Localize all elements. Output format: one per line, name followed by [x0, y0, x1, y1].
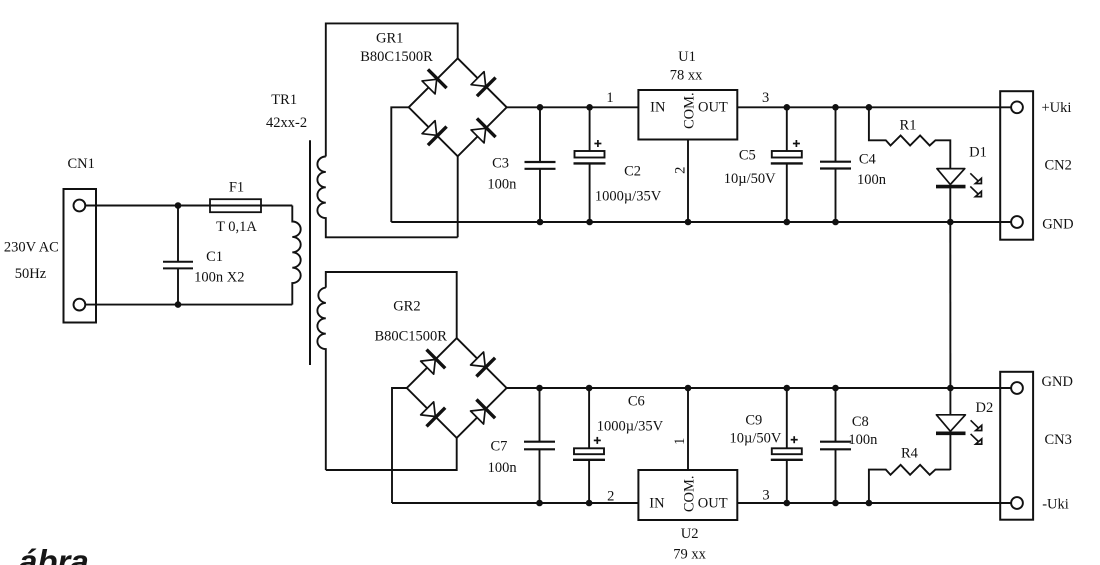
svg-text:10µ/50V: 10µ/50V: [729, 431, 781, 447]
svg-text:100n: 100n: [488, 460, 518, 476]
svg-text:1000µ/35V: 1000µ/35V: [597, 418, 664, 434]
svg-text:U1: U1: [678, 49, 696, 65]
svg-text:2: 2: [672, 167, 688, 174]
svg-text:2: 2: [607, 489, 614, 505]
svg-text:C1: C1: [206, 249, 223, 265]
svg-text:42xx-2: 42xx-2: [266, 115, 307, 131]
svg-text:OUT: OUT: [698, 99, 728, 115]
svg-text:R4: R4: [901, 446, 919, 462]
svg-text:50Hz: 50Hz: [15, 266, 47, 282]
svg-text:C8: C8: [852, 414, 869, 430]
svg-text:230V AC: 230V AC: [4, 240, 59, 256]
svg-text:100n: 100n: [848, 432, 878, 448]
svg-text:78 xx: 78 xx: [670, 68, 703, 84]
svg-text:3: 3: [762, 487, 769, 503]
svg-text:C9: C9: [745, 413, 762, 429]
svg-text:C6: C6: [628, 394, 645, 410]
svg-text:C3: C3: [492, 155, 509, 171]
svg-text:100n: 100n: [487, 177, 517, 193]
svg-text:U2: U2: [681, 526, 699, 542]
svg-text:100n: 100n: [857, 172, 887, 188]
svg-text:T 0,1A: T 0,1A: [216, 219, 257, 235]
svg-text:R1: R1: [900, 118, 917, 134]
svg-text:OUT: OUT: [698, 496, 728, 512]
svg-text:+Uki: +Uki: [1042, 100, 1072, 116]
svg-text:CN1: CN1: [67, 156, 94, 172]
svg-text:D1: D1: [969, 145, 987, 161]
svg-text:TR1: TR1: [271, 92, 297, 108]
svg-text:3: 3: [762, 90, 769, 106]
svg-text:10µ/50V: 10µ/50V: [724, 171, 776, 187]
svg-text:CN2: CN2: [1045, 157, 1072, 173]
svg-text:B80C1500R: B80C1500R: [374, 328, 447, 344]
svg-text:C2: C2: [624, 163, 641, 179]
svg-text:IN: IN: [650, 99, 666, 115]
svg-text:C7: C7: [490, 438, 507, 454]
svg-text:CN3: CN3: [1045, 432, 1072, 448]
svg-text:GND: GND: [1042, 217, 1073, 233]
svg-text:COM.: COM.: [682, 92, 698, 129]
svg-text:1: 1: [606, 90, 613, 106]
svg-text:-Uki: -Uki: [1042, 497, 1069, 513]
svg-text:GR1: GR1: [376, 31, 403, 47]
svg-text:COM.: COM.: [682, 475, 698, 512]
svg-text:D2: D2: [976, 400, 994, 416]
svg-text:79 xx: 79 xx: [673, 546, 706, 562]
svg-text:GND: GND: [1042, 374, 1073, 390]
svg-text:GR2: GR2: [393, 298, 420, 314]
svg-text:B80C1500R: B80C1500R: [360, 49, 433, 65]
svg-text:C4: C4: [859, 151, 877, 167]
svg-text:C5: C5: [739, 148, 756, 164]
svg-text:1000µ/35V: 1000µ/35V: [595, 188, 662, 204]
svg-text:1: 1: [672, 438, 688, 445]
svg-text:IN: IN: [649, 496, 665, 512]
svg-text:F1: F1: [229, 179, 244, 195]
svg-text:100n X2: 100n X2: [194, 269, 244, 285]
